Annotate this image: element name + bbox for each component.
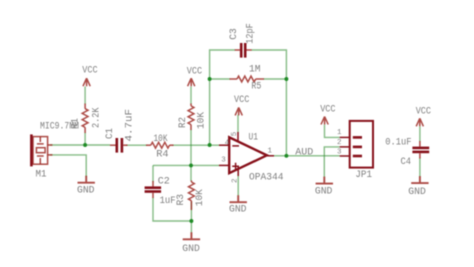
junction output bbox=[284, 154, 288, 158]
wire mic top pin net bbox=[50, 144, 110, 146]
junction R3 bottom bbox=[189, 219, 193, 223]
pin4 stub bbox=[219, 144, 229, 146]
wire R1 bottom to junction bbox=[84, 133, 86, 146]
resistor R5 bbox=[230, 76, 265, 82]
wire R3 bottom bbox=[190, 202, 192, 222]
gnd mic bbox=[78, 176, 95, 183]
svg-text:R5: R5 bbox=[251, 80, 261, 92]
svg-text:5: 5 bbox=[231, 131, 239, 136]
svg-text:4: 4 bbox=[225, 139, 230, 147]
svg-text:10K: 10K bbox=[194, 189, 206, 207]
svg-text:10K: 10K bbox=[196, 111, 208, 129]
wire opamp pin2 gnd bbox=[237, 175, 239, 196]
gnd C4 bbox=[411, 176, 428, 183]
svg-text:R2: R2 bbox=[177, 117, 189, 128]
svg-text:OPA344: OPA344 bbox=[249, 172, 284, 184]
vcc R2 bbox=[188, 78, 195, 86]
wire C2 branch vertical top bbox=[152, 165, 154, 182]
plus sign bbox=[232, 163, 239, 170]
resistor R3 bbox=[189, 181, 195, 211]
wire feedback left vertical bbox=[210, 50, 235, 145]
svg-text:VCC: VCC bbox=[234, 94, 249, 106]
wire R4 to opamp pin4 bbox=[173, 144, 220, 146]
wire opamp output to JP1 pin3 bbox=[273, 155, 340, 157]
svg-text:R1: R1 bbox=[70, 118, 82, 129]
wire JP1 vcc to pin1 bbox=[325, 125, 340, 138]
capacitor C2 bbox=[145, 181, 162, 198]
junction main-R1 bbox=[83, 143, 87, 147]
gnd U1 bbox=[230, 195, 247, 202]
wire C3 right to right vertical bbox=[252, 50, 287, 156]
vcc U1 bbox=[235, 107, 242, 115]
svg-text:C2: C2 bbox=[158, 176, 170, 188]
wire C4 vcc bbox=[419, 126, 421, 141]
svg-text:GND: GND bbox=[77, 184, 95, 196]
svg-text:R4: R4 bbox=[156, 148, 168, 160]
svg-text:1M: 1M bbox=[249, 64, 261, 76]
svg-text:VCC: VCC bbox=[320, 103, 335, 115]
resistor R4 bbox=[146, 142, 174, 148]
junction minus input bbox=[208, 143, 212, 147]
pin5 stub bbox=[237, 132, 239, 142]
resistor R1 bbox=[82, 104, 88, 134]
junction R5 left bbox=[208, 77, 212, 81]
svg-text:GND: GND bbox=[408, 186, 426, 198]
svg-text:0.1uF: 0.1uF bbox=[385, 136, 411, 148]
svg-text:2: 2 bbox=[337, 139, 342, 147]
wire R5 left bbox=[210, 78, 230, 80]
gnd JP1 bbox=[316, 177, 333, 184]
wire R5 right bbox=[264, 78, 287, 80]
pin2 stub bbox=[237, 166, 239, 176]
svg-text:1: 1 bbox=[268, 148, 273, 156]
capacitor C4 bbox=[412, 141, 429, 159]
wire R2 to VCC bbox=[190, 87, 192, 105]
svg-text:U1: U1 bbox=[249, 132, 259, 144]
svg-text:2: 2 bbox=[231, 178, 239, 183]
wire mic bottom pin to GND bbox=[50, 155, 86, 177]
svg-text:GND: GND bbox=[182, 243, 200, 255]
junction R5 right bbox=[284, 77, 288, 81]
wire opamp pin5 vcc bbox=[237, 115, 239, 133]
svg-text:12pF: 12pF bbox=[245, 23, 257, 44]
wire C2 top branch to opamp pin3 bbox=[153, 164, 219, 166]
wire R3 gnd bbox=[190, 221, 192, 233]
svg-text:VCC: VCC bbox=[416, 105, 431, 117]
svg-text:3: 3 bbox=[221, 157, 226, 165]
svg-text:C3: C3 bbox=[228, 28, 240, 40]
pin bars JP1 bbox=[353, 136, 362, 157]
microphone M1 bbox=[31, 134, 52, 166]
op-amp U1 bbox=[229, 137, 267, 173]
wire C1 to R4 bbox=[126, 144, 147, 146]
connector JP1 bbox=[350, 121, 373, 168]
svg-text:VCC: VCC bbox=[82, 64, 97, 76]
svg-text:3: 3 bbox=[337, 149, 342, 157]
resistor R2 bbox=[188, 104, 194, 131]
svg-text:VCC: VCC bbox=[187, 66, 202, 78]
wire R1 to VCC bbox=[84, 87, 86, 105]
vcc C4 bbox=[416, 118, 423, 126]
svg-text:JP1: JP1 bbox=[355, 169, 372, 181]
junction plus input bbox=[189, 163, 193, 167]
wire C4 gnd bbox=[419, 158, 421, 177]
capacitor C1 bbox=[110, 138, 128, 153]
svg-text:M1: M1 bbox=[36, 169, 47, 181]
capacitor C3 bbox=[235, 43, 252, 58]
pin3 stub bbox=[219, 164, 229, 166]
minus sign bbox=[232, 145, 239, 147]
svg-text:1: 1 bbox=[337, 129, 342, 137]
svg-text:10K: 10K bbox=[154, 133, 169, 145]
wire R3 top bbox=[190, 165, 192, 181]
svg-text:AUD: AUD bbox=[295, 147, 313, 159]
svg-text:GND: GND bbox=[315, 186, 333, 198]
pin1 stub bbox=[267, 155, 274, 157]
svg-text:2.2K: 2.2K bbox=[90, 107, 102, 128]
wire R2 bottom through crossing to plus node bbox=[190, 130, 192, 166]
wire JP1 pin2 to gnd bbox=[324, 147, 339, 177]
svg-text:C1: C1 bbox=[104, 128, 116, 139]
gnd R3 bbox=[183, 232, 200, 239]
wire C2 branch vertical bottom bbox=[153, 198, 191, 222]
vcc R1 bbox=[83, 78, 90, 86]
svg-text:C4: C4 bbox=[401, 156, 412, 168]
svg-text:GND: GND bbox=[229, 204, 247, 216]
svg-text:4.7uF: 4.7uF bbox=[124, 109, 136, 142]
svg-text:R3: R3 bbox=[175, 194, 187, 206]
vcc JP1 bbox=[321, 117, 328, 125]
svg-text:1uF: 1uF bbox=[160, 195, 176, 207]
